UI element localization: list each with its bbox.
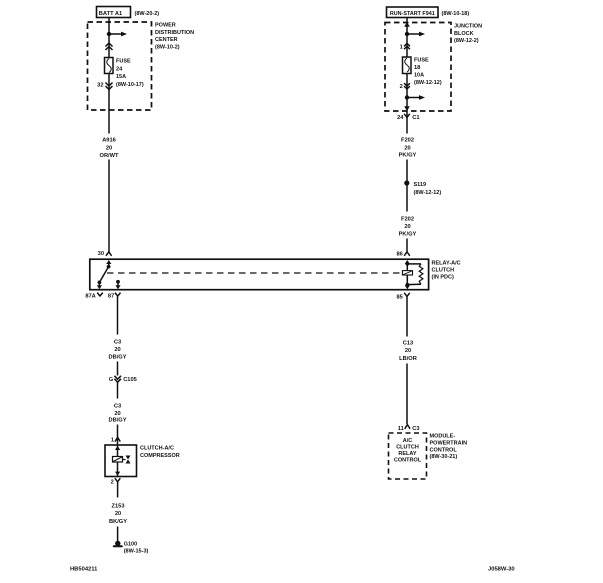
- svg-text:CLUTCH-A/C: CLUTCH-A/C: [140, 446, 174, 452]
- svg-text:32: 32: [97, 83, 103, 89]
- svg-text:30: 30: [98, 251, 104, 257]
- svg-text:C3: C3: [114, 340, 121, 346]
- svg-text:20: 20: [115, 511, 121, 517]
- svg-text:DISTRIBUTION: DISTRIBUTION: [155, 30, 194, 36]
- svg-text:(8W-10-17): (8W-10-17): [116, 82, 144, 88]
- svg-text:MODULE-: MODULE-: [430, 434, 456, 440]
- svg-text:CONTROL: CONTROL: [394, 458, 422, 464]
- svg-text:20: 20: [405, 348, 411, 354]
- svg-text:RUN-START F941: RUN-START F941: [390, 11, 435, 17]
- svg-text:CLUTCH: CLUTCH: [396, 445, 419, 451]
- svg-text:20: 20: [114, 411, 120, 417]
- svg-text:C3: C3: [412, 426, 419, 432]
- svg-text:2: 2: [400, 84, 403, 90]
- svg-text:FUSE: FUSE: [116, 58, 131, 64]
- svg-text:(8W-12-12): (8W-12-12): [414, 190, 442, 196]
- svg-text:RELAY-A/C: RELAY-A/C: [432, 261, 461, 267]
- svg-text:87: 87: [108, 293, 114, 299]
- svg-text:G100: G100: [124, 542, 137, 548]
- svg-text:HB504211: HB504211: [70, 566, 98, 572]
- svg-text:PK/GY: PK/GY: [399, 232, 417, 238]
- svg-text:1: 1: [400, 45, 403, 51]
- svg-text:86: 86: [396, 252, 402, 258]
- svg-text:COMPRESSOR: COMPRESSOR: [140, 453, 180, 459]
- svg-text:RELAY: RELAY: [398, 451, 416, 457]
- svg-text:C1: C1: [412, 115, 419, 121]
- svg-text:(8W-15-3): (8W-15-3): [124, 548, 149, 554]
- svg-text:85: 85: [396, 295, 402, 301]
- svg-text:J058W-30: J058W-30: [488, 567, 515, 573]
- svg-text:LB/OR: LB/OR: [399, 356, 417, 362]
- svg-text:C13: C13: [403, 341, 413, 347]
- svg-text:A916: A916: [102, 138, 116, 144]
- svg-text:20: 20: [404, 224, 410, 230]
- svg-text:FUSE: FUSE: [414, 58, 429, 64]
- svg-text:15A: 15A: [116, 74, 126, 80]
- svg-text:(8W-12-2): (8W-12-2): [454, 38, 479, 44]
- svg-text:20: 20: [114, 347, 120, 353]
- svg-text:C105: C105: [123, 377, 137, 383]
- svg-text:CENTER: CENTER: [155, 37, 178, 43]
- svg-text:CONTROL: CONTROL: [430, 447, 458, 453]
- svg-text:CLUTCH: CLUTCH: [432, 268, 455, 274]
- svg-text:DB/GY: DB/GY: [108, 418, 126, 424]
- svg-text:2: 2: [111, 479, 114, 485]
- svg-text:(8W-10-2): (8W-10-2): [155, 44, 180, 50]
- svg-text:(IN PDC): (IN PDC): [432, 275, 454, 281]
- svg-text:Z153: Z153: [112, 504, 125, 510]
- svg-text:BK/GY: BK/GY: [109, 519, 127, 525]
- svg-text:BATT A1: BATT A1: [99, 11, 122, 17]
- svg-text:POWER: POWER: [155, 23, 176, 29]
- svg-text:G: G: [109, 377, 114, 383]
- svg-text:OR/WT: OR/WT: [100, 153, 119, 159]
- svg-text:POWERTRAIN: POWERTRAIN: [430, 440, 468, 446]
- svg-text:20: 20: [404, 146, 410, 152]
- svg-text:24: 24: [397, 115, 404, 121]
- svg-text:BLOCK: BLOCK: [454, 31, 474, 37]
- svg-text:JUNCTION: JUNCTION: [454, 24, 482, 30]
- svg-text:A/C: A/C: [403, 438, 413, 444]
- svg-text:20: 20: [106, 145, 112, 151]
- svg-text:11: 11: [398, 426, 404, 432]
- svg-text:C3: C3: [114, 404, 121, 410]
- svg-text:DB/GY: DB/GY: [108, 355, 126, 361]
- svg-text:S119: S119: [414, 182, 427, 188]
- svg-text:F202: F202: [401, 217, 414, 223]
- svg-text:(8W-12-12): (8W-12-12): [414, 80, 442, 86]
- svg-text:PK/GY: PK/GY: [399, 153, 417, 159]
- svg-text:(8W-30-21): (8W-30-21): [430, 454, 458, 460]
- svg-text:24: 24: [116, 66, 123, 72]
- svg-text:1: 1: [111, 438, 114, 444]
- svg-text:10A: 10A: [414, 73, 424, 79]
- svg-text:(8W-10-18): (8W-10-18): [442, 11, 470, 17]
- svg-text:(8W-20-2): (8W-20-2): [135, 11, 160, 17]
- svg-text:87A: 87A: [85, 293, 95, 299]
- svg-text:F202: F202: [401, 138, 414, 144]
- svg-text:18: 18: [414, 65, 420, 71]
